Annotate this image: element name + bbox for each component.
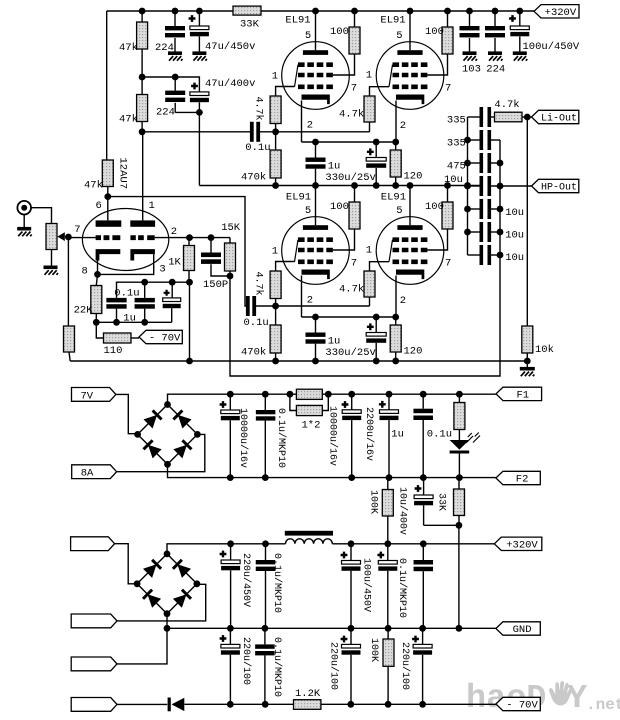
capacitor 100u/450V C17 electrolytic	[519, 11, 521, 26]
terminal +320V (psu)	[494, 537, 542, 550]
ground (pot)	[44, 267, 59, 275]
wire V3 pin7	[333, 229, 355, 250]
svg-text:33K: 33K	[240, 19, 260, 31]
terminal GND	[496, 622, 540, 635]
wire GND rail	[167, 627, 496, 629]
wire 1K chain drop	[189, 282, 191, 361]
svg-text:- 70V: - 70V	[506, 700, 538, 712]
capacitor 47u/400v C4 electrolytic	[191, 83, 198, 90]
terminal -70V (bias)	[131, 337, 139, 339]
svg-text:4.7k: 4.7k	[252, 272, 264, 296]
resistor R24 (LED)	[458, 394, 460, 402]
svg-text:15K: 15K	[221, 222, 241, 234]
wire AC1 to bridge	[115, 544, 138, 584]
V5 right plate	[130, 220, 155, 226]
ground (C2)	[192, 53, 207, 61]
node R1/R2 junction	[139, 74, 146, 81]
node 10u/33K junction	[456, 522, 463, 529]
capacitor 47u/450v C2 electrolytic	[198, 11, 200, 26]
svg-text:100: 100	[330, 201, 349, 213]
terminal 8A	[72, 465, 117, 479]
terminal HP-Out	[532, 179, 579, 192]
wire AC2 to bridge	[117, 584, 206, 621]
wire V2 cathode pin2	[395, 101, 397, 143]
svg-text:100K: 100K	[368, 638, 379, 662]
svg-text:.net: .net	[586, 696, 620, 714]
svg-text:5: 5	[305, 205, 311, 217]
wire BR1 + output	[168, 394, 497, 404]
terminal AC input 2 (blank)	[71, 614, 117, 628]
svg-text:0.1u: 0.1u	[244, 317, 269, 329]
wire 8A to bridge	[117, 434, 205, 471]
terminal +320V (top)	[534, 5, 579, 18]
terminal CT input (blank)	[71, 657, 117, 671]
svg-text:100: 100	[425, 26, 444, 38]
capacitor 10000u/16v C18 electrolytic	[229, 394, 231, 410]
V5 right cathode	[130, 249, 155, 260]
capacitor 10000u/16v C20 electrolytic	[351, 394, 353, 410]
resistor 1K R19	[184, 246, 195, 271]
svg-text:0.1u/MKP10: 0.1u/MKP10	[396, 558, 408, 618]
tube 12AU7 V5	[82, 209, 168, 271]
svg-text:150P: 150P	[203, 279, 228, 291]
capacitor 10u/400v C23 electrolytic	[423, 478, 425, 495]
tube EL91 V3	[282, 217, 350, 285]
svg-text:1u: 1u	[328, 161, 341, 173]
resistor 100 R9 (screen V2)	[442, 27, 453, 54]
terminal F2	[496, 471, 540, 484]
ground (C16)	[488, 53, 503, 61]
wire to 110 resistor	[96, 322, 103, 338]
wire +320V rail	[332, 543, 494, 545]
wire R1 leads	[141, 11, 143, 22]
svg-text:100K: 100K	[367, 490, 378, 514]
svg-text:5: 5	[396, 30, 402, 42]
svg-text:7: 7	[74, 224, 80, 236]
svg-text:120: 120	[404, 171, 423, 183]
svg-text:4.7k: 4.7k	[339, 284, 364, 296]
wire pin2 (grid V5b)	[155, 237, 230, 239]
wire row3	[468, 162, 480, 164]
svg-text:335: 335	[447, 115, 466, 127]
capacitor 0.1u/MKP10 C25	[265, 544, 267, 560]
capacitor 224 C1	[174, 11, 176, 26]
wire bias cap top rail	[117, 282, 190, 298]
svg-text:224: 224	[486, 64, 505, 76]
tube EL91 V4	[376, 217, 444, 285]
capacitor 103 C15	[469, 11, 471, 26]
svg-text:6: 6	[96, 200, 102, 212]
capacitor 0.1u/MKP10 C19	[264, 394, 266, 410]
wire output rail (OTL mid)	[199, 185, 479, 187]
resistor 1.2K R27 (series -70V)	[294, 700, 321, 710]
capacitor 0.1u C11	[106, 298, 126, 303]
wire row1 left	[468, 116, 480, 118]
node divider mid (R2 bottom)	[139, 128, 146, 135]
wire V5b plate load net	[227, 273, 234, 280]
node 1K bottom	[186, 279, 193, 286]
diode D2	[172, 698, 185, 711]
svg-text:12AU7: 12AU7	[117, 158, 129, 190]
svg-text:1: 1	[272, 246, 278, 258]
ground (jack)	[23, 215, 25, 228]
svg-text:4.7k: 4.7k	[339, 109, 364, 121]
node B+ rail junctions	[139, 8, 146, 15]
wire bottom amp rail	[70, 360, 527, 362]
svg-text:HP-Out: HP-Out	[541, 183, 577, 194]
svg-text:0.1u: 0.1u	[114, 287, 139, 299]
capacitor out row2	[480, 130, 484, 150]
resistor 120 R10 (cathode)	[390, 150, 401, 177]
svg-text:47u/400v: 47u/400v	[205, 78, 255, 90]
terminal F1	[496, 387, 542, 400]
svg-text:10u: 10u	[444, 174, 463, 186]
svg-text:2200u/16v: 2200u/16v	[363, 407, 375, 461]
svg-text:1u: 1u	[328, 336, 341, 348]
resistor 4.7k R12 (grid V4)	[364, 271, 375, 297]
svg-text:7: 7	[445, 83, 451, 95]
svg-text:2: 2	[307, 120, 313, 132]
wire BR2 + output	[167, 544, 286, 554]
resistor 4.7k R5 (grid V1)	[270, 96, 281, 124]
resistor 4.7k R11 (grid V3)	[270, 271, 281, 299]
svg-text:1: 1	[366, 70, 372, 82]
capacitor out row3	[480, 153, 484, 173]
resistor 100K R25	[387, 478, 389, 490]
capacitor 220u/100 C31 electrolytic	[350, 628, 352, 644]
wire to ground	[526, 361, 528, 367]
svg-text:F2: F2	[516, 474, 529, 486]
capacitor 220u/450V C26 electrolytic	[350, 544, 352, 561]
wire bias cap bottom rail	[96, 321, 171, 323]
wire pin1 V4	[370, 262, 390, 271]
wire V4 cathode pin2	[395, 276, 397, 318]
wire pin3 lead	[98, 254, 154, 274]
svg-text:220u/100: 220u/100	[328, 642, 340, 690]
wire row7	[468, 254, 480, 256]
capacitor C13 electrolytic	[171, 282, 173, 298]
svg-text:47k: 47k	[119, 114, 138, 126]
wire bias winding to diode	[117, 703, 167, 705]
wire pin1 V2	[370, 87, 390, 96]
svg-text:0.1u/MKP10: 0.1u/MKP10	[271, 637, 283, 697]
capacitor out row6	[480, 222, 484, 242]
wire BR1 - output	[168, 464, 496, 477]
tube EL91 V2	[376, 42, 444, 110]
wire row5	[468, 208, 480, 210]
terminal Li-Out	[532, 110, 579, 123]
svg-text:+320V: +320V	[506, 540, 538, 552]
capacitor out row7	[480, 245, 484, 265]
wire row2	[468, 139, 480, 141]
capacitor 330u/25v C10 electrolytic	[367, 323, 374, 330]
node C3/C4 junction	[196, 109, 203, 116]
capacitor 220u/100 C29 electrolytic	[229, 628, 231, 644]
svg-text:100u/450V: 100u/450V	[361, 558, 373, 612]
wire B+ top rail	[107, 10, 233, 12]
svg-text:2: 2	[400, 295, 406, 307]
wire left B+ drop to 47k R3	[106, 11, 108, 160]
svg-text:- 70V: - 70V	[149, 333, 181, 345]
wire V1 cathode pin2	[301, 101, 303, 143]
wire pin6 lead	[107, 197, 109, 221]
capacitor 150P C14	[210, 238, 212, 253]
capacitor 220u/100 C32 electrolytic	[422, 628, 424, 644]
svg-text:103: 103	[462, 64, 481, 76]
resistor 47k R2	[137, 95, 148, 122]
terminal 7V	[72, 388, 116, 402]
svg-text:10000u/16v: 10000u/16v	[237, 408, 249, 468]
capacitor 0.1u/MKP10 C28	[422, 544, 424, 560]
wire cathode rail lower	[302, 316, 396, 318]
pot wiper arrow	[57, 232, 65, 241]
capacitor 0.1u C8 (coupling lower)	[246, 296, 250, 316]
wire row4 HP	[468, 185, 480, 187]
svg-text:EL91: EL91	[381, 192, 406, 204]
wire V3 cathode pin2	[301, 276, 303, 318]
resistor 33K (series in B+ rail)	[233, 6, 261, 15]
capacitor out row1	[480, 107, 484, 127]
node Li-Out junction	[524, 114, 531, 121]
svg-text:2: 2	[307, 295, 313, 307]
V5 right grid	[130, 235, 154, 240]
svg-text:1: 1	[272, 71, 278, 83]
svg-text:0.1u/MKP10: 0.1u/MKP10	[275, 408, 287, 468]
wire -70V rail	[185, 703, 294, 705]
capacitor out row4	[480, 176, 484, 196]
svg-text:1: 1	[366, 245, 372, 257]
svg-text:47u/450v: 47u/450v	[205, 41, 255, 53]
svg-text:47k: 47k	[84, 180, 103, 192]
resistor R17 (tail)	[64, 326, 75, 352]
svg-text:Li-Out: Li-Out	[541, 113, 577, 125]
wire V3 plate lead	[315, 186, 317, 226]
svg-text:335: 335	[447, 138, 466, 150]
svg-text:0.1u: 0.1u	[245, 142, 270, 154]
wire CT to GND rail	[117, 614, 167, 664]
svg-text:2: 2	[400, 120, 406, 132]
input RCA jack J1	[17, 201, 31, 215]
resistor 470k R7 (grid leak)	[270, 150, 281, 178]
resistor 100K R28 (bleeder)	[387, 628, 389, 639]
svg-text:4.7k: 4.7k	[494, 99, 519, 111]
wire Li-Out drop to 10k	[526, 117, 528, 326]
capacitor 1u C6	[315, 142, 317, 158]
potentiometer VR1	[46, 224, 57, 250]
svg-text:120: 120	[404, 346, 423, 358]
capacitor 0.1u C5 (coupling)	[250, 122, 254, 142]
node pin8/pin3 junction	[94, 271, 101, 278]
svg-text:5: 5	[305, 30, 311, 42]
wire second filter rail	[142, 77, 199, 92]
resistor 4.7k R22 (Li-Out)	[491, 116, 495, 118]
svg-text:10k: 10k	[535, 344, 554, 356]
resistor 47k R1	[137, 22, 148, 49]
svg-text:470k: 470k	[241, 347, 266, 359]
svg-text:EL91: EL91	[285, 14, 310, 26]
tube EL91 V1	[282, 42, 350, 110]
resistor 100 R8 (screen V1)	[349, 27, 360, 54]
resistor 470k R13 (grid leak lower)	[270, 325, 281, 353]
watermark haoDIY.net	[466, 680, 620, 718]
wire 15K drop to feedback line	[230, 255, 500, 376]
wire drop to output rail	[198, 112, 200, 185]
resistor 10k R23	[522, 326, 533, 353]
capacitor 224 C3	[174, 77, 176, 91]
wire pin1 V3	[276, 262, 295, 272]
svg-text:7: 7	[351, 258, 357, 270]
svg-text:8: 8	[82, 266, 88, 278]
resistor 1*2 Ra (series)	[296, 389, 322, 399]
node grid node	[272, 128, 279, 135]
svg-text:100: 100	[425, 201, 444, 213]
svg-text:1u: 1u	[391, 429, 404, 441]
capacitor 220u/450V C24 electrolytic	[230, 544, 232, 560]
svg-text:100: 100	[330, 26, 349, 38]
V5 left cathode	[96, 249, 121, 260]
resistor 47k R3 (plate V5a)	[102, 160, 113, 187]
wire pin1 lead (V5b plate)	[142, 132, 144, 221]
wire V1 plate lead	[315, 11, 317, 50]
svg-text:Y: Y	[567, 680, 588, 718]
capacitor 224 C16	[494, 11, 496, 26]
svg-text:475: 475	[447, 160, 466, 172]
svg-text:F1: F1	[516, 390, 529, 402]
svg-text:10u/400v: 10u/400v	[397, 487, 409, 535]
bridge rectifier BR2	[137, 554, 167, 584]
svg-text:22K: 22K	[74, 305, 94, 317]
svg-text:1*2: 1*2	[302, 420, 321, 432]
capacitor 330u/25v C7 electrolytic	[367, 148, 374, 155]
choke L1	[285, 531, 333, 536]
svg-text:220u/450V: 220u/450V	[240, 553, 252, 607]
LED D1	[458, 430, 460, 441]
resistor 110 R20	[104, 333, 132, 343]
svg-text:7: 7	[351, 83, 357, 95]
wire V4 plate lead	[409, 186, 411, 226]
node wiper junction	[65, 234, 72, 241]
svg-text:8A: 8A	[81, 468, 94, 480]
svg-text:10u: 10u	[505, 230, 524, 242]
svg-text:330u/25v: 330u/25v	[325, 347, 375, 359]
wire V2 pin7	[427, 54, 447, 75]
svg-text:100u/450V: 100u/450V	[523, 41, 580, 53]
svg-text:0.1u/MKP10: 0.1u/MKP10	[271, 553, 283, 613]
svg-text:+320V: +320V	[545, 7, 577, 19]
svg-text:2: 2	[171, 226, 177, 238]
wire pin8 lead	[97, 261, 99, 275]
wire cathode rail upper	[302, 141, 396, 143]
svg-text:33K: 33K	[435, 493, 446, 511]
svg-text:330u/25v: 330u/25v	[325, 172, 375, 184]
svg-text:224: 224	[156, 107, 175, 119]
wire V2 plate lead	[409, 11, 411, 50]
svg-text:10u: 10u	[505, 207, 524, 219]
node pin6 junction	[104, 193, 111, 200]
capacitor 0.1u C22	[422, 394, 424, 409]
wire pin7 (grid V5a) from pot	[68, 237, 95, 239]
ground (C15)	[463, 53, 478, 61]
V5 left grid	[96, 235, 121, 240]
capacitor 2200u/16v C21 electrolytic	[388, 394, 390, 410]
wire wiper drop	[67, 237, 69, 326]
resistor 120 R16 (cathode lower)	[390, 325, 401, 352]
node 10k bottom	[524, 358, 531, 365]
svg-text:10u: 10u	[505, 252, 524, 264]
wire jack to pot	[31, 208, 52, 224]
svg-text:5: 5	[396, 205, 402, 217]
nodes +320V rail	[227, 540, 234, 547]
wire coupling line to grids	[141, 122, 143, 132]
resistor 100 R15 (screen V4)	[442, 202, 453, 229]
svg-text:0.1u: 0.1u	[427, 429, 452, 441]
ground (C17)	[513, 53, 528, 61]
resistor 33K R26	[458, 478, 460, 489]
node lower grid node	[272, 303, 279, 310]
resistor 100 R14 (screen V3)	[349, 202, 360, 229]
svg-text:110: 110	[104, 345, 123, 357]
svg-text:47k: 47k	[119, 42, 138, 54]
terminal -70V (psu)	[496, 697, 540, 710]
svg-text:1.2K: 1.2K	[295, 688, 321, 700]
svg-text:1: 1	[149, 200, 155, 212]
svg-text:7V: 7V	[81, 390, 94, 402]
resistor 4.7k R6 (grid V2)	[364, 96, 375, 122]
wire V1 pin7	[333, 54, 355, 75]
svg-text:4.7k: 4.7k	[252, 97, 264, 121]
wire output caps right rail	[499, 140, 501, 255]
svg-text:1K: 1K	[168, 256, 181, 268]
svg-text:7: 7	[445, 258, 451, 270]
wire pot to ground	[51, 250, 53, 266]
wire row6	[468, 231, 480, 233]
capacitor 0.1u/MKP10 C30	[264, 628, 266, 644]
terminal bias winding (blank)	[71, 698, 117, 712]
wire to bottom rail	[69, 352, 70, 361]
svg-text:10000u/16v: 10000u/16v	[327, 406, 339, 466]
resistor 22K R18 (cathode V5a)	[91, 286, 102, 314]
wire driver coupling to lower grids	[108, 197, 246, 306]
capacitor out row5	[480, 199, 484, 219]
capacitor 100u/450V C27 electrolytic	[387, 544, 389, 561]
wire output caps left rail	[467, 117, 469, 255]
ground (10k)	[520, 369, 535, 377]
wire pin1 V1	[276, 87, 295, 97]
capacitor 1u C9	[315, 317, 317, 333]
terminal AC input 1 (blank)	[71, 537, 115, 551]
svg-text:GND: GND	[513, 624, 532, 636]
resistor 1*2 Rb (parallel)	[296, 405, 322, 415]
bridge rectifier BR1	[138, 405, 168, 435]
svg-text:EL91: EL91	[380, 14, 405, 26]
wire 7V to bridge	[116, 394, 138, 433]
wire junction drop to GND rail	[458, 525, 460, 628]
svg-text:470k: 470k	[241, 172, 266, 184]
resistor 15K R21	[229, 238, 231, 243]
capacitor C12	[144, 282, 146, 298]
V5 left plate	[96, 220, 122, 226]
svg-text:220u/100: 220u/100	[399, 642, 411, 690]
ground (C1)	[168, 53, 183, 61]
nodes heater rails	[227, 391, 234, 398]
svg-text:220u/100: 220u/100	[240, 637, 252, 685]
svg-text:EL91: EL91	[286, 192, 311, 204]
svg-text:3: 3	[159, 264, 165, 276]
wire V4 pin7	[427, 229, 447, 250]
